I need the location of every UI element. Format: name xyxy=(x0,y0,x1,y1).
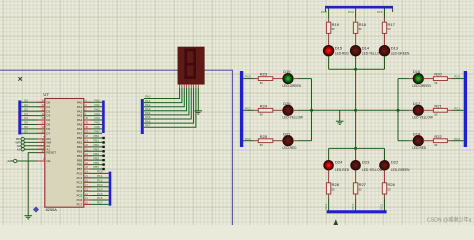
resistor R26 xyxy=(382,183,386,194)
svg-text:CSDN @城南少年a: CSDN @城南少年a xyxy=(427,216,472,224)
pin stub D6 xyxy=(37,128,45,130)
svg-text:PB2: PB2 xyxy=(94,143,100,147)
wire R21 to bus xyxy=(452,109,464,111)
dangling square PB6 xyxy=(102,163,104,165)
resistor R25 xyxy=(258,139,273,143)
LED D18 LED-RED xyxy=(413,136,423,146)
resistor R19 xyxy=(326,22,330,33)
svg-text:PA7: PA7 xyxy=(77,131,83,135)
svg-text:A1: A1 xyxy=(17,147,21,151)
bus: bottom cluster bus xyxy=(327,210,387,213)
svg-text:LED-GREEN: LED-GREEN xyxy=(412,84,431,88)
wire PC4 xyxy=(84,190,109,192)
wire: top cluster common xyxy=(329,68,385,70)
7-seg pin 5 wire xyxy=(190,84,192,88)
wire PC1 xyxy=(84,177,109,179)
pin stub PB1 xyxy=(84,141,92,143)
pin stub PB7 xyxy=(84,168,92,170)
svg-text:R28: R28 xyxy=(332,182,340,187)
wire D3 xyxy=(21,115,45,117)
pin stub D2 xyxy=(37,110,45,112)
link D17 to R21 xyxy=(423,109,433,111)
svg-text:D7: D7 xyxy=(24,130,28,134)
svg-text:PB4: PB4 xyxy=(77,154,83,158)
pin stub A0 xyxy=(37,145,45,147)
LED D24 LED-RED xyxy=(324,160,334,170)
wire RESET to ground xyxy=(28,153,45,216)
pin stub D18 left xyxy=(409,140,413,142)
svg-text:D1: D1 xyxy=(46,105,50,109)
svg-text:D3: D3 xyxy=(46,114,50,118)
pin stub PA3 xyxy=(84,115,92,117)
pin stub D5 xyxy=(37,123,45,125)
svg-text:PB4: PB4 xyxy=(94,152,100,156)
pin stub PB3 xyxy=(84,150,92,152)
svg-text:PA0: PA0 xyxy=(77,100,83,104)
bus: data bus left of U7 xyxy=(18,101,21,135)
svg-text:PC2: PC2 xyxy=(245,137,251,141)
pin stub R19 top xyxy=(328,18,330,22)
pin stub D19 right xyxy=(293,78,297,80)
pin stub R22 right xyxy=(447,140,451,142)
wire PB7 xyxy=(84,168,103,170)
svg-text:PB6: PB6 xyxy=(94,161,100,165)
svg-text:PB0: PB0 xyxy=(77,136,83,140)
bus: PC bus right of U7 xyxy=(109,172,112,206)
wire PC7 xyxy=(84,203,109,205)
LED D14 LED-YELLOW xyxy=(350,45,361,56)
pin stub A1 xyxy=(37,148,45,150)
svg-text:D24: D24 xyxy=(335,160,343,165)
wire PC6 xyxy=(84,199,109,201)
svg-text:D2: D2 xyxy=(24,107,28,111)
svg-text:D5: D5 xyxy=(24,121,28,125)
svg-text:LED-GREEN: LED-GREEN xyxy=(282,84,301,88)
svg-text:PC4: PC4 xyxy=(97,187,103,191)
svg-text:PB1: PB1 xyxy=(77,141,83,145)
wire: drop to bottom cluster xyxy=(355,110,357,148)
pin stub PA6 xyxy=(84,128,92,130)
pin stub D7 xyxy=(37,132,45,134)
svg-text:R17: R17 xyxy=(388,22,396,27)
svg-text:D18: D18 xyxy=(413,131,421,136)
wire R18 to LED stub xyxy=(355,33,357,45)
svg-text:D13: D13 xyxy=(391,45,399,50)
wire R17 to LED stub xyxy=(384,33,386,45)
wire PA6 xyxy=(84,128,102,130)
pin stub PC1 xyxy=(84,177,92,179)
svg-text:D17: D17 xyxy=(413,101,421,106)
svg-text:D15: D15 xyxy=(335,45,343,50)
wire PA2 xyxy=(84,110,102,112)
resistor R24 xyxy=(258,108,273,112)
svg-text:R26: R26 xyxy=(388,182,396,187)
wire WR to U7 xyxy=(24,141,44,143)
resistor R17 xyxy=(382,22,386,33)
svg-text:PC4: PC4 xyxy=(348,10,354,14)
wire below D13 xyxy=(384,56,386,69)
pin stub R28 bottom xyxy=(328,194,330,198)
bus: PA bus right of U7 xyxy=(102,101,105,134)
svg-text:PB3: PB3 xyxy=(77,149,83,153)
wire PB1 xyxy=(84,141,103,143)
pin stub CE xyxy=(37,160,45,162)
svg-text:PB7: PB7 xyxy=(77,167,83,171)
pin stub R18 top xyxy=(355,18,357,22)
svg-text:PC3: PC3 xyxy=(77,185,83,189)
wire top bus col 3 xyxy=(384,9,386,19)
svg-text:PC0: PC0 xyxy=(77,172,83,176)
pin stub PC3 xyxy=(84,186,92,188)
svg-text:D1: D1 xyxy=(24,103,28,107)
terminal WR xyxy=(21,141,24,144)
svg-text:PC5: PC5 xyxy=(377,10,383,14)
pin stub PB4 xyxy=(84,155,92,157)
bus: left cluster bus xyxy=(240,71,243,147)
wire R26 to bottom bus xyxy=(384,198,386,210)
terminal RD xyxy=(21,137,24,140)
pin stub R24 left xyxy=(254,109,258,111)
svg-text:PC1: PC1 xyxy=(77,176,83,180)
pin stub R23 left xyxy=(254,78,258,80)
wire R28 to bottom bus xyxy=(328,198,330,210)
pin stub D0 xyxy=(37,101,45,103)
link D24 to R28 xyxy=(328,170,330,183)
wire PB3 xyxy=(84,150,103,152)
LED D16 LED-GREEN xyxy=(413,73,423,83)
svg-text:PA4: PA4 xyxy=(77,118,83,122)
bus entry ticks xyxy=(324,9,326,13)
svg-text:8255A: 8255A xyxy=(46,207,58,212)
wire PB6 xyxy=(84,164,103,166)
wire RD to U7 xyxy=(24,138,44,140)
wire below D15 xyxy=(328,56,330,69)
pin stub D3 xyxy=(37,115,45,117)
link R24 to LED xyxy=(273,109,283,111)
pin stub PC4 xyxy=(84,190,92,192)
7-seg pin 0 wire xyxy=(179,84,181,88)
svg-text:PA6: PA6 xyxy=(77,127,83,131)
pin stub R25 left xyxy=(254,140,258,142)
dangling square PB1 xyxy=(102,141,104,143)
LED D21 LED-RED xyxy=(283,136,293,146)
pin stub PA4 xyxy=(84,119,92,121)
wire D4 xyxy=(21,119,45,121)
wire PC5 xyxy=(84,195,109,197)
resistor R23 xyxy=(258,77,273,81)
LED D19 LED-GREEN xyxy=(283,73,293,83)
bus: 7-seg segment bus xyxy=(141,99,144,134)
svg-text:R23: R23 xyxy=(260,72,268,77)
svg-text:R19: R19 xyxy=(332,22,340,27)
wire below D14 xyxy=(355,56,357,69)
svg-text:PC4: PC4 xyxy=(351,203,355,209)
svg-text:PC7: PC7 xyxy=(97,201,103,205)
pin stub R27 bottom xyxy=(355,194,357,198)
svg-text:D0: D0 xyxy=(24,99,28,103)
svg-text:PB2: PB2 xyxy=(77,145,83,149)
7-segment display body xyxy=(178,47,204,84)
svg-text:D20: D20 xyxy=(283,101,291,106)
wire: left collector vertical xyxy=(311,79,313,141)
svg-text:PA1: PA1 xyxy=(77,105,83,109)
wire PC0 xyxy=(84,172,109,174)
svg-text:D6: D6 xyxy=(46,127,50,131)
7-seg pin 6 wire xyxy=(193,84,195,88)
pin stub PC2 xyxy=(84,181,92,183)
wire PB2 xyxy=(84,146,103,148)
wire collector to D17 xyxy=(398,109,409,111)
wire R27 to bottom bus xyxy=(355,198,357,210)
pin stub RD xyxy=(37,138,45,140)
svg-text:LED-YELLOW: LED-YELLOW xyxy=(412,116,433,120)
svg-text:PC0: PC0 xyxy=(97,170,103,174)
ground under 7-seg xyxy=(195,111,203,114)
svg-text:R20: R20 xyxy=(434,72,442,77)
link D18 to R22 xyxy=(423,140,433,142)
pin stub WR xyxy=(37,141,45,143)
svg-text:PC2: PC2 xyxy=(454,137,460,141)
wire D21 out xyxy=(297,140,311,142)
svg-text:LED-YELLOW: LED-YELLOW xyxy=(282,116,303,120)
pin stub D20 right xyxy=(293,109,297,111)
pin stub D1 xyxy=(37,106,45,108)
svg-text:PA3: PA3 xyxy=(77,114,83,118)
wire D1 xyxy=(21,106,45,108)
wire PA3 xyxy=(84,115,102,117)
svg-text:PC3: PC3 xyxy=(324,203,328,209)
wire R19 to LED stub xyxy=(328,33,330,45)
wire bus to R25 xyxy=(243,140,254,142)
svg-text:D16: D16 xyxy=(413,69,421,74)
wire collector to D18 xyxy=(398,140,409,142)
terminal _S2B xyxy=(14,159,17,162)
wire D6 xyxy=(21,128,45,130)
pin stub R17 top xyxy=(384,18,386,22)
svg-text:PC1: PC1 xyxy=(245,106,251,110)
dangling square PB3 xyxy=(102,150,104,152)
wire: bottom feed xyxy=(329,147,385,149)
7-seg pin 1 wire xyxy=(181,84,183,88)
7-seg common pin xyxy=(197,84,199,88)
dangling square PB0 xyxy=(102,137,104,139)
svg-text:PC4: PC4 xyxy=(77,189,83,193)
svg-text:R18: R18 xyxy=(359,22,367,27)
pin stub PA5 xyxy=(84,123,92,125)
wire R22 to bus xyxy=(452,140,464,142)
wire PB5 xyxy=(84,159,103,161)
pin stub PA1 xyxy=(84,106,92,108)
wire PA1 xyxy=(84,106,102,108)
svg-text:R27: R27 xyxy=(359,182,367,187)
svg-text:D19: D19 xyxy=(283,69,291,74)
resistor R20 xyxy=(433,77,447,81)
link R25 to LED xyxy=(273,140,283,142)
wire PA7 xyxy=(84,132,102,134)
svg-text:PC3: PC3 xyxy=(321,10,327,14)
svg-text:D22: D22 xyxy=(391,160,399,165)
svg-text:R22: R22 xyxy=(434,134,442,139)
svg-text:PA4: PA4 xyxy=(95,116,101,120)
svg-text:PC2: PC2 xyxy=(77,180,83,184)
pin stub PC6 xyxy=(84,199,92,201)
svg-text:PB5: PB5 xyxy=(77,158,83,162)
pin stub R26 bottom xyxy=(384,194,386,198)
svg-text:D2: D2 xyxy=(46,109,50,113)
svg-text:RESET: RESET xyxy=(46,151,56,155)
wire PC3 xyxy=(84,186,109,188)
wire PB0 xyxy=(84,137,103,139)
pin stub PB6 xyxy=(84,164,92,166)
pin stub PB2 xyxy=(84,146,92,148)
resistor R28 xyxy=(326,183,330,194)
svg-text:PA2: PA2 xyxy=(77,109,83,113)
marker x xyxy=(18,77,22,81)
svg-text:PB6: PB6 xyxy=(77,163,83,167)
svg-text:PB3: PB3 xyxy=(94,147,100,151)
dangling square PB7 xyxy=(102,168,104,170)
svg-text:R25: R25 xyxy=(260,134,268,139)
wire D5 xyxy=(21,123,45,125)
wire D0 xyxy=(21,101,45,103)
7-seg pin 2 wire xyxy=(183,84,185,88)
wire: center drop top xyxy=(355,69,357,110)
svg-text:LED-RED: LED-RED xyxy=(282,146,297,150)
pin stub D21 right xyxy=(293,140,297,142)
7-seg pin 3 wire xyxy=(186,84,188,88)
wire A1 to U7 xyxy=(24,148,44,150)
pin stub D4 xyxy=(37,119,45,121)
pin stub PB5 xyxy=(84,159,92,161)
wire drop to D23 xyxy=(355,148,357,160)
wire PA4 xyxy=(84,119,102,121)
svg-text:U7: U7 xyxy=(43,92,49,97)
pin stub PA7 xyxy=(84,132,92,134)
svg-text:PC5: PC5 xyxy=(97,192,103,196)
wire PB4 xyxy=(84,155,103,157)
resistor R18 xyxy=(353,22,357,33)
svg-text:PA3: PA3 xyxy=(95,112,101,116)
svg-text:D5: D5 xyxy=(46,123,50,127)
svg-text:D4: D4 xyxy=(24,116,28,120)
svg-text:PB0: PB0 xyxy=(94,134,100,138)
svg-text:PC0: PC0 xyxy=(454,75,460,79)
svg-text:PA1: PA1 xyxy=(95,103,101,107)
svg-text:PA2: PA2 xyxy=(95,107,101,111)
wire: long navy route xyxy=(0,70,233,225)
wire PC2 xyxy=(84,181,109,183)
svg-text:CE: CE xyxy=(46,159,50,163)
svg-text:D3: D3 xyxy=(24,112,28,116)
terminal A1 xyxy=(21,148,24,151)
dangling square PB2 xyxy=(102,146,104,148)
7-seg pin 7 wire xyxy=(195,84,197,88)
wire D20 out xyxy=(297,109,311,111)
link D16 to R20 xyxy=(423,78,433,80)
svg-text:PA7: PA7 xyxy=(145,123,151,127)
wire D7 xyxy=(21,132,45,134)
svg-text:LED-RED: LED-RED xyxy=(335,168,350,172)
link R23 to LED xyxy=(273,78,283,80)
resistor R22 xyxy=(433,139,447,143)
LED D13 LED-GREEN xyxy=(379,45,390,56)
resistor R27 xyxy=(353,183,357,194)
wire PA0 xyxy=(84,101,102,103)
LED D17 LED-YELLOW xyxy=(413,105,423,115)
pin stub D16 left xyxy=(409,78,413,80)
wire collector to D16 xyxy=(398,78,409,80)
pin stub PC7 xyxy=(84,203,92,205)
svg-text:PC0: PC0 xyxy=(245,75,251,79)
terminal A0 xyxy=(21,144,24,147)
link D22 to R26 xyxy=(384,170,386,183)
svg-text:PA5: PA5 xyxy=(95,121,101,125)
pin stub PC5 xyxy=(84,195,92,197)
svg-text:R21: R21 xyxy=(434,103,442,108)
wire: right collector vertical xyxy=(397,79,399,141)
svg-text:LED-YELLOW: LED-YELLOW xyxy=(362,168,383,172)
wire top bus col 1 xyxy=(328,9,330,19)
svg-text:PC6: PC6 xyxy=(97,196,103,200)
pin stub RESET xyxy=(37,152,45,154)
svg-text:PA6: PA6 xyxy=(95,125,101,129)
pin stub R20 right xyxy=(447,78,451,80)
wire D19 out xyxy=(297,78,311,80)
bus: top cluster bus xyxy=(325,6,393,9)
svg-text:PC6: PC6 xyxy=(77,198,83,202)
LED D15 LED-RED xyxy=(323,45,334,56)
svg-text:LED-RED: LED-RED xyxy=(412,146,427,150)
pin stub PA0 xyxy=(84,101,92,103)
wire bus to R23 xyxy=(243,78,254,80)
wire drop to D22 xyxy=(384,148,386,160)
ground for RESET xyxy=(24,216,32,219)
link D23 to R27 xyxy=(355,170,357,183)
svg-text:PA0: PA0 xyxy=(95,99,101,103)
ground center xyxy=(339,110,341,121)
pin stub D17 left xyxy=(409,109,413,111)
svg-text:_S2B: _S2B xyxy=(5,159,13,163)
svg-text:D23: D23 xyxy=(362,160,370,165)
wire D2 xyxy=(21,110,45,112)
pin stub PC0 xyxy=(84,172,92,174)
svg-text:PC1: PC1 xyxy=(97,174,103,178)
wire R20 to bus xyxy=(452,78,464,80)
7-segment figure-8 segments xyxy=(184,49,196,79)
blue diamond marker xyxy=(33,207,38,212)
svg-text:PA5: PA5 xyxy=(77,123,83,127)
svg-text:D21: D21 xyxy=(283,131,291,136)
resistor R21 xyxy=(433,108,447,112)
LED D20 LED-YELLOW xyxy=(283,105,293,115)
wire CS xyxy=(17,160,45,162)
wire A0 to U7 xyxy=(24,145,44,147)
wire bus to R24 xyxy=(243,109,254,111)
svg-text:PC2: PC2 xyxy=(97,178,103,182)
pin stub PA2 xyxy=(84,110,92,112)
svg-text:PB1: PB1 xyxy=(94,139,100,143)
origin marker triangle xyxy=(334,219,339,225)
svg-text:LED-GREEN: LED-GREEN xyxy=(391,51,410,55)
bus: right cluster bus xyxy=(464,71,467,147)
LED D23 LED-YELLOW xyxy=(351,160,361,170)
pin stub PB0 xyxy=(84,137,92,139)
svg-text:D6: D6 xyxy=(24,125,28,129)
svg-text:LED-GREEN: LED-GREEN xyxy=(391,168,410,172)
svg-text:R24: R24 xyxy=(260,103,268,108)
svg-text:LED-RED: LED-RED xyxy=(335,51,350,55)
chip U7 8255A body xyxy=(45,99,84,208)
